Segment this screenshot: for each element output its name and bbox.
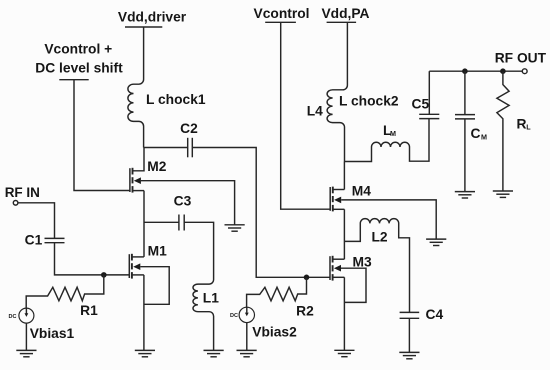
svg-text:RF OUT: RF OUT xyxy=(495,51,547,66)
ground (M2 body) xyxy=(225,225,245,231)
source Vbias2 xyxy=(230,307,297,339)
inductor L chock2 xyxy=(307,22,399,161)
svg-text:C5: C5 xyxy=(412,97,430,112)
wire C3 feed xyxy=(144,221,179,223)
capacitor C1 xyxy=(25,233,65,248)
wire M3 body loop xyxy=(341,268,366,302)
capacitor C5 xyxy=(412,97,440,119)
capacitor C2 xyxy=(180,121,198,157)
svg-text:L1: L1 xyxy=(203,291,219,306)
ground (M3 source) xyxy=(334,350,354,356)
capacitor C3 xyxy=(174,194,192,231)
svg-text:DC: DC xyxy=(9,314,17,320)
wire M1 body loop xyxy=(140,267,169,305)
wire C5 to output rail xyxy=(428,71,430,114)
capacitor C4 xyxy=(400,307,444,322)
svg-text:RF IN: RF IN xyxy=(5,185,40,200)
wire C2 feed xyxy=(144,147,188,149)
capacitor CM xyxy=(455,71,487,191)
terminal Vcontrol + DC level shift xyxy=(35,42,123,80)
svg-text:C3: C3 xyxy=(174,194,192,209)
svg-text:R2: R2 xyxy=(296,304,314,319)
svg-text:Vcontrol: Vcontrol xyxy=(254,6,310,21)
wire C1 to M1 gate xyxy=(55,243,130,275)
svg-text:R1: R1 xyxy=(80,303,98,318)
wire output rail xyxy=(429,70,522,72)
svg-text:C: C xyxy=(471,126,481,141)
port RF IN xyxy=(5,185,40,205)
node B (CM tap) xyxy=(462,68,468,74)
svg-text:C1: C1 xyxy=(25,233,43,248)
wire M1 source to ground xyxy=(143,275,145,350)
wire Vcontrol to M4 gate xyxy=(281,22,331,209)
wire M4 source / M3 drain xyxy=(343,209,345,259)
wire RF IN to C1 xyxy=(18,203,55,239)
ground (Vbias1) xyxy=(16,350,36,356)
svg-text:Vdd,PA: Vdd,PA xyxy=(321,6,369,21)
svg-text:C2: C2 xyxy=(180,121,198,136)
ground (CM) xyxy=(455,192,475,198)
ground (C4) xyxy=(399,352,419,358)
wire C3 to L1 xyxy=(184,222,213,276)
terminal Vdd,driver xyxy=(118,10,187,28)
ground (M1 source) xyxy=(135,350,155,356)
transistor M3 xyxy=(330,255,372,281)
svg-text:L: L xyxy=(526,123,531,132)
wire C2 to M3 gate xyxy=(192,148,330,278)
inductor L1 xyxy=(193,277,219,351)
ground (RL) xyxy=(493,191,513,197)
inductor L chock1 xyxy=(128,27,206,148)
svg-text:L2: L2 xyxy=(372,230,388,245)
wire M3 source to ground xyxy=(343,277,345,350)
svg-text:DC: DC xyxy=(230,313,238,319)
ground (Vbias2) xyxy=(237,350,257,356)
transistor M4 xyxy=(330,184,371,212)
port RF OUT xyxy=(495,51,547,74)
svg-text:C4: C4 xyxy=(426,307,444,322)
transistor M1 xyxy=(129,244,167,279)
terminal Vcontrol xyxy=(254,6,310,22)
wire Vbias1 to ground xyxy=(25,323,27,350)
svg-text:DC level shift: DC level shift xyxy=(35,61,123,76)
svg-text:Vdd,driver: Vdd,driver xyxy=(118,10,187,25)
svg-text:M4: M4 xyxy=(352,184,371,199)
node D (M3 gate) xyxy=(304,275,310,281)
wire M4 drain node xyxy=(343,162,345,190)
svg-text:L chock2: L chock2 xyxy=(339,94,399,109)
ground (L1) xyxy=(204,350,224,356)
svg-text:M: M xyxy=(481,133,487,142)
wire M2 source / M1 drain xyxy=(143,191,145,257)
source Vbias1 xyxy=(9,308,75,341)
node A (M1 gate) xyxy=(101,272,107,278)
resistor RL xyxy=(497,71,531,191)
wire M4 body to ground xyxy=(341,200,436,239)
svg-text:L chock1: L chock1 xyxy=(146,92,206,107)
wire Vbias2 to ground xyxy=(246,323,248,351)
svg-text:Vbias2: Vbias2 xyxy=(252,325,297,340)
terminal Vdd,PA xyxy=(321,6,369,22)
transistor M2 xyxy=(130,148,167,193)
node C (RL tap) xyxy=(500,68,506,74)
resistor R2 xyxy=(247,277,315,318)
inductor L2 xyxy=(344,219,409,313)
svg-text:M: M xyxy=(390,129,396,138)
wire C4 to ground xyxy=(408,318,410,352)
svg-text:M2: M2 xyxy=(147,159,166,174)
wire M2 body to ground xyxy=(141,181,235,225)
resistor R1 xyxy=(26,275,104,318)
svg-text:L4: L4 xyxy=(307,104,323,119)
wire Vcontrol to M2 gate xyxy=(74,80,130,191)
inductor LM xyxy=(345,119,430,162)
ground (M4 body) xyxy=(426,239,446,245)
svg-text:Vcontrol +: Vcontrol + xyxy=(44,42,112,57)
svg-text:M3: M3 xyxy=(353,255,372,270)
svg-text:M1: M1 xyxy=(148,244,167,259)
svg-text:Vbias1: Vbias1 xyxy=(30,326,75,341)
svg-text:R: R xyxy=(517,117,527,132)
